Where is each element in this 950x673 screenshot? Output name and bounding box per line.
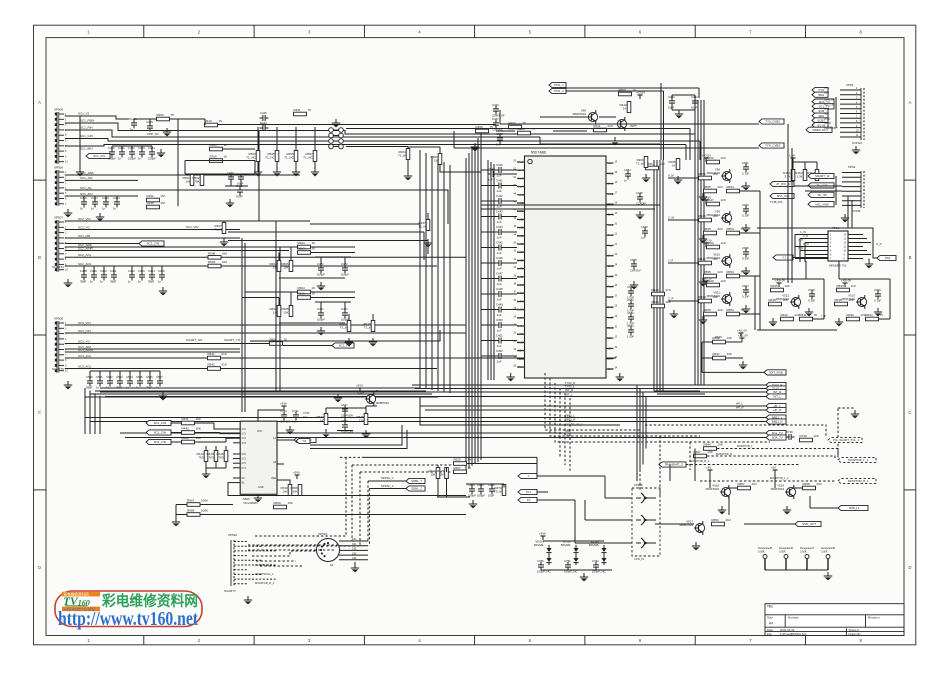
resistor below V510 xyxy=(704,274,717,278)
svg-text:BNF: BNF xyxy=(608,357,614,361)
svg-text:File:: File: xyxy=(767,632,773,636)
ground xyxy=(205,470,207,474)
connector XP507 SCART3 xyxy=(56,220,58,272)
net label pill Y1 xyxy=(773,255,793,260)
svg-text:C584: C584 xyxy=(624,168,631,172)
IC pin right 14 xyxy=(606,296,614,298)
svg-text:180: 180 xyxy=(713,295,718,299)
wire long verticals between blocks xyxy=(241,238,243,412)
svg-text:1.5uF: 1.5uF xyxy=(627,335,634,339)
svg-text:T1_NC: T1_NC xyxy=(284,156,294,160)
DIN connector XP510 xyxy=(317,539,340,562)
svg-text:75K: 75K xyxy=(194,180,199,184)
resistor R642 R625 vertical xyxy=(436,468,440,479)
svg-text:R739: R739 xyxy=(800,434,808,438)
net label TYP_CVBS pill xyxy=(759,143,784,148)
ground xyxy=(855,146,857,150)
svg-text:T1_NC: T1_NC xyxy=(246,156,256,160)
svg-text:R330: R330 xyxy=(147,201,155,205)
ground xyxy=(166,128,168,132)
capacitor C305 xyxy=(497,137,503,139)
svg-text:.1uF: .1uF xyxy=(496,282,502,286)
svg-text:N58 TA881: N58 TA881 xyxy=(531,151,547,155)
IC pin right 21 xyxy=(606,368,614,370)
svg-text:120: 120 xyxy=(721,241,726,245)
svg-text:YS: YS xyxy=(302,439,306,443)
svg-text:.1uF: .1uF xyxy=(496,189,502,193)
svg-text:R620: R620 xyxy=(652,300,660,304)
svg-text:1K: 1K xyxy=(312,286,316,290)
resistor R331 xyxy=(294,112,307,116)
svg-text:MMBT904: MMBT904 xyxy=(680,523,694,527)
IC pin left 12 xyxy=(517,251,525,253)
svg-text:SCART_YO: SCART_YO xyxy=(224,338,241,342)
svg-text:10K: 10K xyxy=(439,473,444,477)
wire AIL long rail xyxy=(300,190,448,224)
net label pill TV_VYS xyxy=(808,183,834,188)
svg-text:C442: C442 xyxy=(496,194,503,198)
svg-text:10K: 10K xyxy=(196,427,201,431)
capacitor C697 xyxy=(743,289,749,291)
svg-text:10K: 10K xyxy=(666,300,671,304)
svg-text:39pF: 39pF xyxy=(86,386,93,390)
IC pin left 26 xyxy=(517,366,525,368)
svg-text:0.00K: 0.00K xyxy=(821,551,828,554)
svg-text:P1: P1 xyxy=(527,498,531,502)
IC2 pin 2Y3 xyxy=(233,467,240,469)
ground xyxy=(289,426,291,430)
svg-text:C646: C646 xyxy=(641,225,648,229)
IC pin left 13 xyxy=(517,259,525,261)
wire net SC3_CIN xyxy=(65,332,466,334)
svg-text:10K: 10K xyxy=(718,443,723,447)
capacitor C699 xyxy=(875,293,881,295)
IC pin right 15 xyxy=(606,306,614,308)
wire net SC1_GIN xyxy=(65,139,700,142)
net label pill SCB2 xyxy=(812,118,828,123)
svg-text:Y_P: Y_P xyxy=(668,259,673,263)
central bus risers second group xyxy=(487,160,489,380)
svg-text:.1uF: .1uF xyxy=(496,313,502,317)
svg-text:C426: C426 xyxy=(260,121,267,125)
svg-text:SCL: SCL xyxy=(518,357,524,361)
wire V513 loop xyxy=(839,278,890,280)
wire upper long rail second xyxy=(346,128,690,130)
bus wires SCL SDA xyxy=(120,432,766,434)
wire net SC2_VIN xyxy=(65,220,310,222)
wire from AV connector to R364 xyxy=(346,146,408,148)
svg-text:CNF10V: CNF10V xyxy=(280,420,291,424)
svg-text:R603: R603 xyxy=(298,247,306,251)
ground xyxy=(67,209,69,213)
svg-text:+5V: +5V xyxy=(771,466,776,470)
svg-text:1M: 1M xyxy=(161,194,166,198)
svg-text:SC3_YO: SC3_YO xyxy=(78,339,91,343)
svg-text:R627: R627 xyxy=(454,466,462,470)
wire net SC1_Y0 xyxy=(65,116,130,119)
wire bottom rail right xyxy=(757,329,837,331)
svg-text:T1_M: T1_M xyxy=(636,162,644,166)
ground xyxy=(229,199,231,203)
svg-text:MMST904: MMST904 xyxy=(573,112,587,116)
svg-text:Ycc3: Ycc3 xyxy=(608,223,614,227)
wire net SC2_MR xyxy=(65,237,240,239)
svg-text:SC1_RIN: SC1_RIN xyxy=(80,126,93,130)
wire net SC1_BIN xyxy=(65,145,686,147)
wire designated rail xyxy=(765,569,828,571)
IC pin left 14 xyxy=(517,268,525,270)
svg-text:75: 75 xyxy=(880,313,884,317)
ground xyxy=(677,176,679,180)
svg-text:Vcc: Vcc xyxy=(608,161,613,165)
svg-text:C427: C427 xyxy=(492,117,499,121)
resistor R667 R668 horizontal pair xyxy=(187,503,200,507)
svg-text:R635: R635 xyxy=(771,284,779,288)
resistor R442 xyxy=(182,431,195,435)
ground xyxy=(745,305,747,309)
ground xyxy=(827,572,829,576)
svg-text:C446: C446 xyxy=(496,256,503,260)
connector XP500 SCART1 video xyxy=(56,112,58,164)
svg-text:C425: C425 xyxy=(260,111,267,115)
svg-text:T1_M: T1_M xyxy=(398,154,406,158)
resistor R3K1 xyxy=(791,170,795,181)
resistor R628 R620 xyxy=(652,292,665,296)
wire net SC3_AOL with resistor R542 xyxy=(65,368,207,370)
resistor R637 cluster xyxy=(713,356,726,360)
wire R636 R637 collector xyxy=(701,342,703,372)
svg-text:+5VA: +5VA xyxy=(356,384,363,388)
IC pin right 12 xyxy=(606,275,614,277)
wire C_M xyxy=(668,219,698,221)
svg-text:Cnc2: Cnc2 xyxy=(608,202,615,206)
svg-text:10K: 10K xyxy=(196,417,201,421)
svg-text:R644: R644 xyxy=(704,443,712,447)
svg-text:1M: 1M xyxy=(161,201,166,205)
svg-text:XP508: XP508 xyxy=(54,317,63,321)
svg-text:.1uF: .1uF xyxy=(496,174,502,178)
svg-text:Y_P: Y_P xyxy=(798,238,803,242)
watermark TV160 logo xyxy=(55,591,202,627)
resistor below V511 xyxy=(704,312,717,316)
svg-text:R594: R594 xyxy=(208,260,216,264)
wire bus drops to monitor area xyxy=(636,385,638,481)
svg-text:SC1_VIN: SC1_VIN xyxy=(186,225,199,229)
RC network block 1 R60x C47x xyxy=(289,246,355,248)
svg-text:C: C xyxy=(38,410,41,415)
wire pl p feeds xyxy=(537,475,605,477)
svg-text:R633: R633 xyxy=(837,284,845,288)
resistor R341 R330 xyxy=(147,198,160,202)
svg-text:0.1uF: 0.1uF xyxy=(742,257,749,261)
resistor R503 R505 R506 R507 vertical pulls xyxy=(257,127,259,150)
resistor R640 R656 vertical xyxy=(288,485,292,496)
svg-text:TV3B_SCL: TV3B_SCL xyxy=(770,200,784,204)
svg-text:C452: C452 xyxy=(496,349,503,353)
svg-text:1n: 1n xyxy=(158,280,162,284)
resistor R629 R627 boxes xyxy=(454,462,467,466)
capacitor C691 xyxy=(743,166,749,168)
svg-text:+5VA: +5VA xyxy=(293,471,300,475)
svg-text:SC2_AOL: SC2_AOL xyxy=(78,262,92,266)
wire bundle corners below IC xyxy=(654,390,700,392)
svg-text:C730: C730 xyxy=(280,409,287,413)
wire net SC3_VIN xyxy=(65,324,430,326)
net pill SND_L1 xyxy=(838,505,868,510)
svg-text:SC1_AIRL: SC1_AIRL xyxy=(80,171,95,175)
svg-text:GND: GND xyxy=(258,486,264,489)
svg-text:1uF: 1uF xyxy=(641,236,646,240)
wire IC2 input steps xyxy=(214,423,233,429)
ground xyxy=(868,260,870,264)
svg-text:75: 75 xyxy=(814,313,818,317)
capacitor C425 xyxy=(131,122,137,124)
svg-text:75: 75 xyxy=(741,308,745,312)
wire V_M xyxy=(668,177,698,179)
transistor V513 stage xyxy=(844,283,846,287)
svg-text:120: 120 xyxy=(721,279,726,283)
bus wires below IC TY02 xyxy=(412,384,766,386)
resistor R544 1K vertical xyxy=(324,414,328,425)
transistor stage V58 xyxy=(705,158,707,162)
svg-text:SC3_AOL: SC3_AOL xyxy=(78,364,92,368)
svg-text:XT01_2: XT01_2 xyxy=(554,89,565,93)
svg-text:R628: R628 xyxy=(652,288,660,292)
svg-text:R654: R654 xyxy=(727,308,735,312)
svg-text:MONITOR_R_1: MONITOR_R_1 xyxy=(255,581,275,585)
svg-text:Y_M: Y_M xyxy=(798,246,803,250)
svg-text:470P: 470P xyxy=(236,195,243,199)
svg-text:120: 120 xyxy=(721,198,726,202)
svg-text:YnS2: YnS2 xyxy=(517,226,524,230)
svg-text:Number: Number xyxy=(788,616,799,620)
resistor R443 xyxy=(182,440,195,444)
resistor R660 xyxy=(274,505,287,509)
svg-text:TYP_CVBS: TYP_CVBS xyxy=(765,144,780,148)
ground IC2 xyxy=(257,494,259,498)
svg-text:Revision: Revision xyxy=(868,616,880,620)
capacitor C750 xyxy=(538,564,544,566)
svg-text:.1uF: .1uF xyxy=(496,267,502,271)
ground xyxy=(335,119,337,123)
svg-text:T1_b: T1_b xyxy=(340,326,347,330)
svg-text:LnR5: LnR5 xyxy=(517,332,524,336)
cluster C726 R739 xyxy=(788,434,790,440)
bus wires BB51 xyxy=(85,417,766,419)
wire bus corner left-down xyxy=(100,387,420,389)
svg-text:C750: C750 xyxy=(303,411,310,415)
IC pin right 11 xyxy=(606,265,614,267)
wire cluster RC loop xyxy=(185,160,255,162)
IC pin right 2 xyxy=(606,172,614,174)
wire net SC3_ACL with resistor R541 xyxy=(65,357,207,359)
svg-text:Vss1: Vss1 xyxy=(518,160,524,164)
svg-text:V_P: V_P xyxy=(876,242,882,246)
svg-text:C448: C448 xyxy=(496,287,503,291)
ground xyxy=(745,224,747,228)
bus net label pills right xyxy=(766,382,786,387)
svg-text:CLK2: CLK2 xyxy=(608,264,615,268)
svg-text:PIA_SCART_TCL_1: PIA_SCART_TCL_1 xyxy=(833,438,860,442)
capacitor C751 xyxy=(565,564,571,566)
IC pin right 18 xyxy=(606,337,614,339)
svg-text:Cnc1: Cnc1 xyxy=(608,182,615,186)
svg-text:120: 120 xyxy=(721,156,726,160)
power +G1V xyxy=(639,95,641,99)
svg-text:75: 75 xyxy=(741,270,745,274)
capacitor C540 xyxy=(490,171,492,177)
transistor V519 xyxy=(774,470,776,474)
IC pin left 9 xyxy=(517,227,525,229)
svg-text:R657: R657 xyxy=(738,482,746,486)
svg-text:180: 180 xyxy=(849,298,854,302)
svg-text:R300: R300 xyxy=(210,143,218,147)
svg-text:10pF: 10pF xyxy=(691,106,698,110)
svg-text:SND_OUT: SND_OUT xyxy=(802,522,816,526)
svg-text:22nF/50V: 22nF/50V xyxy=(341,414,353,418)
svg-text:CON8: CON8 xyxy=(852,209,861,213)
IC pin left 19 xyxy=(517,309,525,311)
svg-text:LnR1: LnR1 xyxy=(517,267,524,271)
svg-text:1K: 1K xyxy=(312,241,316,245)
svg-text:C688: C688 xyxy=(630,258,637,262)
svg-text:910: 910 xyxy=(222,352,227,356)
svg-text:VEE: VEE xyxy=(271,477,276,480)
ground xyxy=(742,361,744,365)
svg-text:10pF: 10pF xyxy=(668,106,675,110)
svg-text:+5VA: +5VA xyxy=(280,402,287,406)
svg-text:1n: 1n xyxy=(113,207,117,211)
svg-text:1n: 1n xyxy=(138,280,142,284)
svg-text:SC1_AIR: SC1_AIR xyxy=(80,176,93,180)
wire DIN pin 5 xyxy=(339,559,368,561)
IC2 pin 1Y1 xyxy=(233,433,240,435)
svg-text:TY0_CVBS: TY0_CVBS xyxy=(765,120,780,124)
svg-text:C444: C444 xyxy=(496,225,503,229)
svg-text:Cnc3: Cnc3 xyxy=(608,233,615,237)
IC2 pin 1Y2 xyxy=(233,437,240,439)
svg-text:SPDSL_Y: SPDSL_Y xyxy=(381,476,394,480)
RCA jack 1 xyxy=(641,493,645,503)
svg-text:XP508: XP508 xyxy=(634,483,643,487)
dashed bus horizontal upper xyxy=(340,456,362,458)
ground xyxy=(854,410,856,414)
wire DIN pin 3 xyxy=(339,549,368,551)
svg-text:100pF: 100pF xyxy=(477,494,485,498)
resistor R307 pulldown xyxy=(222,223,226,234)
svg-text:SC2_CIN: SC2_CIN xyxy=(154,431,166,435)
svg-text:R598: R598 xyxy=(208,251,216,255)
wire XP500 pin collector xyxy=(79,116,81,168)
IC pin left 15 xyxy=(517,276,525,278)
capacitor C426a xyxy=(147,125,153,127)
svg-text:INT_R: INT_R xyxy=(565,388,573,392)
svg-text:BAV99L: BAV99L xyxy=(561,543,571,547)
svg-text:10K: 10K xyxy=(430,473,435,477)
svg-text:1n: 1n xyxy=(91,207,95,211)
svg-text:R647: R647 xyxy=(707,198,715,202)
svg-text:RnS5: RnS5 xyxy=(517,340,524,344)
resistor below V58 xyxy=(704,189,717,193)
svg-text:.1uF: .1uF xyxy=(496,236,502,240)
transistor V56 MMST904 xyxy=(588,112,597,121)
svg-text:1n: 1n xyxy=(128,280,132,284)
svg-text:SC1_GIN: SC1_GIN xyxy=(80,134,93,138)
svg-text:SC1_FBIN: SC1_FBIN xyxy=(80,119,94,123)
svg-text:SCYB: SCYB xyxy=(824,122,831,125)
svg-text:SC3_CIN: SC3_CIN xyxy=(154,440,166,444)
wire R310 rail xyxy=(169,118,205,120)
svg-text:SC_SP: SC_SP xyxy=(817,193,827,197)
svg-text:CLK1: CLK1 xyxy=(608,213,615,217)
svg-text:HEADER 7X2: HEADER 7X2 xyxy=(829,264,847,268)
svg-text:C_M: C_M xyxy=(803,242,808,246)
wire top-center links xyxy=(540,116,587,118)
svg-text:R626: R626 xyxy=(715,335,722,339)
wire transistor links xyxy=(709,474,711,488)
capacitor C731 xyxy=(293,414,299,416)
IC pin right 20 xyxy=(606,358,614,360)
main IC N58 TA881 xyxy=(525,156,607,378)
wire jack feeds xyxy=(605,497,632,499)
svg-text:A: A xyxy=(38,100,41,105)
ground xyxy=(162,392,164,396)
ground xyxy=(160,149,162,153)
IC pin left 10 xyxy=(517,235,525,237)
wire R360 links xyxy=(439,147,441,154)
svg-text:R655: R655 xyxy=(704,308,712,312)
svg-text:120: 120 xyxy=(785,284,790,288)
svg-text:1Y2: 1Y2 xyxy=(242,437,247,440)
svg-text:Drawn By:: Drawn By: xyxy=(849,632,862,636)
svg-text:HP_R: HP_R xyxy=(736,406,743,410)
svg-text:1K: 1K xyxy=(224,143,228,147)
svg-text:C581: C581 xyxy=(627,285,634,289)
svg-text:910: 910 xyxy=(222,260,227,264)
svg-text:SC1_CIN: SC1_CIN xyxy=(93,154,105,158)
svg-text:+(G)1V: +(G)1V xyxy=(636,91,645,95)
IC pin left 1 xyxy=(517,161,525,163)
ground xyxy=(721,506,723,510)
svg-text:220: 220 xyxy=(718,308,723,312)
svg-text:R443: R443 xyxy=(182,436,190,440)
svg-text:SPDSL_C: SPDSL_C xyxy=(381,484,394,488)
net label pill SDA_TV xyxy=(812,99,834,104)
svg-text:SDS: SDS xyxy=(824,92,829,95)
wire Y_P xyxy=(668,262,698,264)
wire net SC2_AOL with resistor R594 xyxy=(65,265,208,267)
wire audio out right xyxy=(384,397,620,425)
svg-text:1n: 1n xyxy=(130,128,134,132)
capacitor C686 xyxy=(489,488,495,490)
net label pill SCL_TV xyxy=(812,104,834,109)
net label pill VYS xyxy=(812,87,828,92)
net pill audio xyxy=(296,438,310,443)
svg-text:R655: R655 xyxy=(704,270,712,274)
svg-text:1n: 1n xyxy=(100,280,104,284)
svg-text:+5V: +5V xyxy=(706,466,711,470)
svg-text:10K: 10K xyxy=(196,436,201,440)
resistor R347 T1_N vertical xyxy=(427,213,429,219)
ground xyxy=(79,168,81,172)
svg-text:0.1n: 0.1n xyxy=(303,415,309,419)
wire SC2 bus to IC xyxy=(310,223,420,225)
svg-text:1n: 1n xyxy=(118,157,122,161)
svg-text:R633: R633 xyxy=(866,313,874,317)
net pill EXT pill xyxy=(764,370,786,375)
svg-text:MONITOR_R: MONITOR_R xyxy=(716,452,732,456)
svg-text:2Y0: 2Y0 xyxy=(242,453,247,456)
